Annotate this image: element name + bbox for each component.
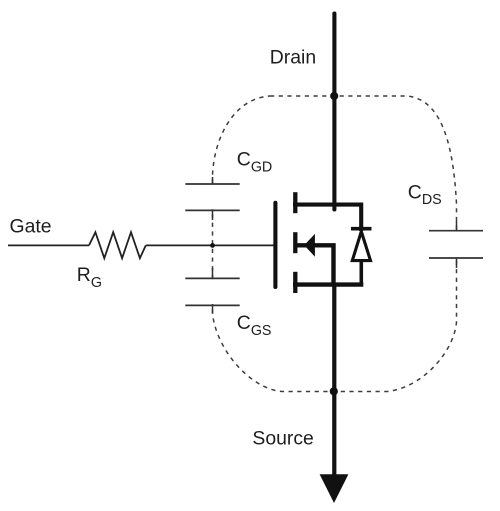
capacitor CGS (185, 268, 239, 313)
label Drain (270, 46, 316, 68)
wire: body connection with arrow corner (296, 245, 334, 284)
transistor Q1 channel bar drain (293, 192, 297, 213)
resistor RG (89, 232, 146, 258)
diode D1 triangle (352, 232, 370, 261)
svg-text:CDS: CDS (408, 181, 442, 208)
label Gate (10, 216, 52, 238)
transistor Q1 channel bar source (293, 272, 297, 293)
wire: diode to source stub (359, 261, 363, 285)
label CGD (237, 149, 272, 176)
capacitor CDS (429, 221, 483, 268)
svg-text:Drain: Drain (270, 46, 316, 68)
label Source (252, 427, 313, 449)
source terminal arrowhead (320, 474, 349, 503)
dashed boundary of MOSFET parasitic region (204, 96, 465, 392)
capacitor CGD (185, 177, 239, 220)
wire: drain stub (293, 205, 361, 231)
svg-text:Source: Source (252, 427, 313, 449)
transistor Q1 channel bar body (293, 232, 297, 253)
transistor Q1 gate bar (273, 203, 277, 287)
label CGS (237, 312, 272, 339)
transistor Q1 body arrow (304, 234, 315, 257)
label RG (77, 264, 102, 291)
wire: source line (332, 285, 336, 477)
wire: gate lead (8, 244, 89, 246)
node: drain junction dot (330, 92, 338, 100)
svg-text:RG: RG (77, 264, 102, 291)
node: gate junction dot (210, 243, 215, 248)
wire: resistor to gate bar (146, 244, 274, 246)
diode D1 cathode bar (351, 227, 372, 231)
svg-text:CGD: CGD (237, 149, 272, 176)
svg-text:CGS: CGS (237, 312, 272, 339)
wire: drain line (332, 14, 336, 210)
svg-text:Gate: Gate (10, 216, 52, 238)
label CDS (408, 181, 442, 208)
wire: source stub (293, 282, 363, 286)
node: source junction dot (330, 387, 338, 395)
